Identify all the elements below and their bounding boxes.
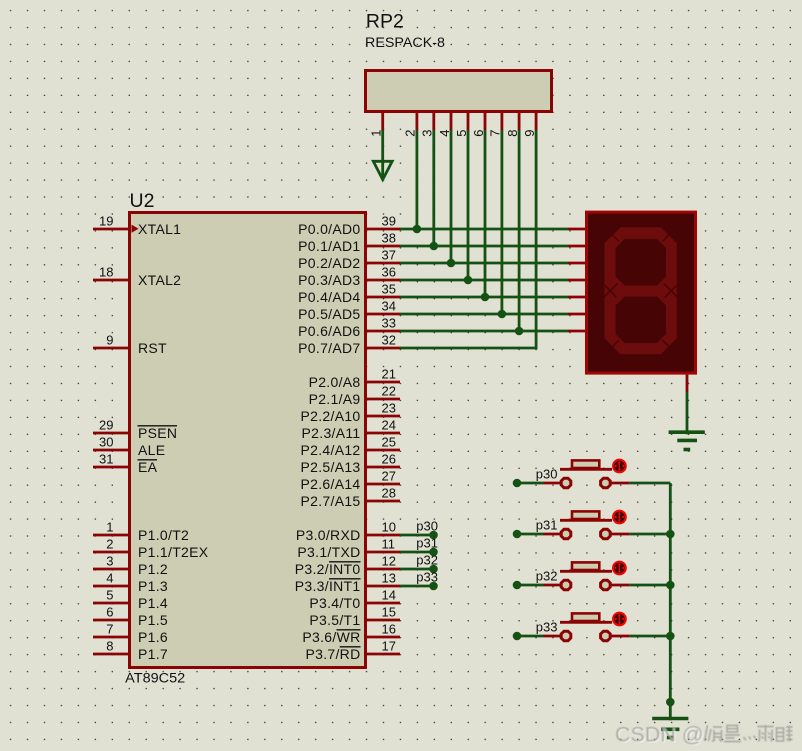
svg-text:P3.0/RXD: P3.0/RXD (296, 527, 361, 543)
wire button p30 to bus (630, 482, 671, 485)
svg-text:P2.0/A8: P2.0/A8 (309, 374, 361, 390)
RP2 pin 4 stub (450, 111, 453, 130)
wire RP2 pin 9 vertical (535, 130, 538, 349)
XTAL1 clock arrow (132, 225, 139, 233)
junction RP2 pin2 / P0.0 (413, 225, 422, 234)
svg-text:P1.2: P1.2 (138, 561, 168, 577)
svg-text:36: 36 (382, 265, 396, 280)
microcontroller U2 AT89C52 body (130, 213, 366, 668)
button right contact (601, 580, 611, 590)
svg-text:32: 32 (382, 333, 396, 348)
wire net p33 stub (400, 585, 434, 588)
wire P0.6 to display (400, 330, 568, 333)
pin 32 stub (367, 347, 400, 350)
svg-text:3: 3 (106, 554, 113, 569)
svg-text:XTAL2: XTAL2 (138, 272, 181, 288)
svg-text:p32: p32 (536, 569, 558, 584)
overline INT0 (329, 561, 361, 563)
pin 2 wire (93, 551, 128, 554)
svg-text:1: 1 (369, 129, 384, 136)
svg-text:25: 25 (382, 435, 396, 450)
button actuator icon (612, 612, 627, 627)
svg-text:P3.5/T1: P3.5/T1 (309, 612, 360, 628)
junction bus (666, 581, 675, 590)
node p33 terminal (button side) (513, 632, 522, 641)
wire P0.2 to display (400, 262, 568, 265)
svg-text:19: 19 (99, 214, 113, 229)
wire display common to ground (686, 392, 689, 434)
svg-text:P2.4/A12: P2.4/A12 (301, 442, 361, 458)
button right contact (601, 529, 611, 539)
button right lead (611, 482, 630, 485)
svg-text:EA: EA (138, 459, 158, 475)
node p32 terminal (button side) (513, 581, 522, 590)
svg-text:XTAL1: XTAL1 (138, 221, 181, 237)
svg-text:8: 8 (106, 639, 113, 654)
svg-text:P0.3/AD3: P0.3/AD3 (298, 272, 360, 288)
svg-text:RST: RST (138, 340, 167, 356)
wire RP2 pin 5 vertical (467, 130, 470, 280)
junction bus lower (666, 698, 675, 707)
wire RP2 pin 3 vertical (432, 130, 435, 246)
svg-text:34: 34 (382, 299, 396, 314)
pin 5 wire (93, 602, 128, 605)
junction bus (666, 530, 675, 539)
pin 3 wire (93, 568, 128, 571)
button actuator bar (560, 519, 612, 522)
svg-text:9: 9 (522, 129, 537, 136)
pin 15 stub (367, 619, 400, 622)
svg-text:P3.4/T0: P3.4/T0 (309, 595, 360, 611)
pin 9 wire (93, 347, 128, 350)
svg-text:RP2: RP2 (366, 10, 404, 32)
node p33 terminal (429, 582, 438, 591)
wire RP2 pin 7 vertical (500, 130, 503, 314)
overline PSEN (138, 425, 178, 427)
display pin stub 0 (568, 228, 585, 231)
button right lead (611, 584, 630, 587)
svg-text:8: 8 (505, 129, 520, 136)
svg-text:24: 24 (382, 418, 396, 433)
RP2 pin 7 stub (500, 111, 503, 130)
button cap (572, 460, 599, 468)
display pin stub 4 (568, 296, 585, 299)
pin 33 stub (367, 330, 400, 333)
pin 30 wire (93, 449, 128, 452)
svg-text:P2.5/A13: P2.5/A13 (301, 459, 361, 475)
pin 7 wire (93, 636, 128, 639)
svg-text:P3.7/RD: P3.7/RD (305, 646, 360, 662)
button left lead (544, 533, 561, 536)
button cap (572, 562, 599, 570)
pin 28 stub (367, 500, 400, 503)
svg-text:21: 21 (382, 367, 396, 382)
svg-text:P0.0/AD0: P0.0/AD0 (298, 221, 360, 237)
display pin stub 5 (568, 313, 585, 316)
svg-text:P0.2/AD2: P0.2/AD2 (298, 255, 360, 271)
wire button p32 to bus (630, 584, 671, 587)
button left lead (544, 635, 561, 638)
svg-text:P1.7: P1.7 (138, 646, 168, 662)
pin 11 stub (367, 551, 400, 554)
svg-text:30: 30 (99, 435, 113, 450)
junction RP2 pin8 / P0.6 (515, 327, 524, 336)
svg-text:P1.0/T2: P1.0/T2 (138, 527, 189, 543)
svg-text:13: 13 (382, 571, 396, 586)
svg-text:P1.1/T2EX: P1.1/T2EX (138, 544, 209, 560)
wire RP2 pin 2 vertical (415, 130, 418, 229)
pin 17 stub (367, 653, 400, 656)
button cap (572, 613, 599, 621)
svg-text:AT89C52: AT89C52 (125, 671, 185, 686)
svg-text:22: 22 (382, 384, 396, 399)
display pin stub 6 (568, 330, 585, 333)
pin 21 stub (367, 381, 400, 384)
junction bus (666, 632, 675, 641)
svg-text:CSDN @: CSDN @ (615, 723, 704, 747)
svg-text:28: 28 (382, 486, 396, 501)
svg-text:18: 18 (99, 265, 113, 280)
svg-text:p30: p30 (536, 467, 558, 482)
svg-text:P0.5/AD5: P0.5/AD5 (298, 306, 360, 322)
svg-text:P3.6/WR: P3.6/WR (302, 629, 360, 645)
button left contact (561, 580, 571, 590)
pin 1 wire (93, 534, 128, 537)
pin 4 wire (93, 585, 128, 588)
RP2 pin 1 stub (381, 111, 384, 130)
wire p33 to button (517, 635, 544, 638)
pin 36 stub (367, 279, 400, 282)
svg-text:17: 17 (382, 639, 396, 654)
svg-text:7: 7 (106, 622, 113, 637)
svg-text:1: 1 (106, 520, 113, 535)
pin 8 wire (93, 653, 128, 656)
svg-text:38: 38 (382, 231, 396, 246)
svg-text:U2: U2 (130, 190, 155, 212)
svg-text:P3.1/TXD: P3.1/TXD (297, 544, 360, 560)
svg-text:39: 39 (382, 214, 396, 229)
wire net p30 stub (400, 534, 434, 537)
svg-text:P3.3/INT1: P3.3/INT1 (295, 578, 361, 594)
button left lead (544, 482, 561, 485)
ground symbol (display) (669, 432, 705, 449)
pin 16 stub (367, 636, 400, 639)
svg-text:14: 14 (382, 588, 396, 603)
button right lead (611, 635, 630, 638)
pin 19 wire (93, 228, 128, 231)
pin 29 wire (93, 432, 128, 435)
RP2 pin 5 stub (467, 111, 470, 130)
svg-text:2: 2 (403, 129, 418, 136)
svg-text:p31: p31 (536, 518, 558, 533)
svg-text:10: 10 (382, 520, 396, 535)
display common pin stub (686, 375, 689, 392)
pin 14 stub (367, 602, 400, 605)
pin 24 stub (367, 432, 400, 435)
svg-text:P1.3: P1.3 (138, 578, 168, 594)
segment seams (604, 228, 677, 354)
button left contact (561, 478, 571, 488)
display pin stub 1 (568, 245, 585, 248)
pin 18 wire (93, 279, 128, 282)
wire net p32 stub (400, 568, 434, 571)
pin 31 wire (93, 466, 128, 469)
pin 23 stub (367, 415, 400, 418)
svg-text:23: 23 (382, 401, 396, 416)
svg-text:4: 4 (437, 129, 452, 136)
svg-text:p33: p33 (536, 620, 558, 635)
pin 34 stub (367, 313, 400, 316)
wire net p31 stub (400, 551, 434, 554)
display pin stub 3 (568, 279, 585, 282)
RP2 pin 8 stub (518, 111, 521, 130)
wire p31 to button (517, 533, 544, 536)
svg-text:P0.7/AD7: P0.7/AD7 (298, 340, 360, 356)
pin 10 stub (367, 534, 400, 537)
overline RD (340, 646, 361, 648)
7-segment display body (587, 212, 696, 373)
RP2 pin 2 stub (415, 111, 418, 130)
svg-text:16: 16 (382, 622, 396, 637)
button actuator bar (560, 621, 612, 624)
ground symbol (buttons) (652, 719, 688, 738)
svg-text:P2.7/A15: P2.7/A15 (301, 493, 361, 509)
wire RP2 pin 6 vertical (484, 130, 487, 297)
7-segment digit 8 (605, 227, 677, 354)
button left contact (561, 529, 571, 539)
svg-text:12: 12 (382, 554, 396, 569)
svg-text:P2.3/A11: P2.3/A11 (302, 425, 361, 441)
svg-text:P3.2/INT0: P3.2/INT0 (295, 561, 361, 577)
svg-text:5: 5 (106, 588, 113, 603)
wire P0.3 to display (400, 279, 568, 282)
svg-text:31: 31 (99, 452, 113, 467)
pin 37 stub (367, 262, 400, 265)
junction RP2 pin7 / P0.5 (498, 310, 507, 319)
node p30 terminal (429, 531, 438, 540)
button actuator bar (560, 570, 612, 573)
wire P0.0 to display (400, 228, 568, 231)
display pin stub 2 (568, 262, 585, 265)
node p30 terminal (button side) (513, 479, 522, 488)
wire button bus vertical (669, 483, 672, 720)
pin 39 stub (367, 228, 400, 231)
pin 12 stub (367, 568, 400, 571)
svg-text:P1.5: P1.5 (138, 612, 168, 628)
svg-text:PSEN: PSEN (138, 425, 177, 441)
svg-text:6: 6 (471, 129, 486, 136)
svg-text:RESPACK-8: RESPACK-8 (365, 35, 445, 50)
node p31 terminal (429, 548, 438, 557)
wire p32 to button (517, 584, 544, 587)
wire RP2 pin 4 vertical (450, 130, 453, 263)
svg-text:P2.2/A10: P2.2/A10 (301, 408, 361, 424)
pin 6 wire (93, 619, 128, 622)
overline EA (138, 459, 158, 461)
svg-text:P2.1/A9: P2.1/A9 (309, 391, 361, 407)
wire p30 to button (517, 482, 544, 485)
button cap (572, 511, 599, 519)
junction RP2 pin5 / P0.3 (464, 276, 473, 285)
svg-text:P0.4/AD4: P0.4/AD4 (298, 289, 360, 305)
resistor pack RP2 (366, 71, 552, 112)
svg-text:37: 37 (382, 248, 396, 263)
button right lead (611, 533, 630, 536)
svg-text:9: 9 (106, 333, 113, 348)
pin 35 stub (367, 296, 400, 299)
svg-text:P0.6/AD6: P0.6/AD6 (298, 323, 360, 339)
wire RP2 pin 8 vertical (518, 130, 521, 331)
svg-text:11: 11 (382, 537, 396, 552)
wire P0.7 to RP2 pin9 (400, 347, 536, 350)
pin 25 stub (367, 449, 400, 452)
svg-text:P0.1/AD1: P0.1/AD1 (298, 238, 360, 254)
svg-text:3: 3 (420, 129, 435, 136)
pin 38 stub (367, 245, 400, 248)
pin 26 stub (367, 466, 400, 469)
button right contact (601, 478, 611, 488)
svg-text:26: 26 (382, 452, 396, 467)
svg-text:P1.4: P1.4 (138, 595, 168, 611)
button right contact (601, 631, 611, 641)
wire button p31 to bus (630, 533, 671, 536)
ground arrow symbol (373, 161, 392, 179)
wire P0.4 to display (400, 296, 568, 299)
pin 27 stub (367, 483, 400, 486)
RP2 pin 3 stub (432, 111, 435, 130)
svg-text:5: 5 (454, 129, 469, 136)
junction RP2 pin4 / P0.2 (447, 259, 456, 268)
button actuator icon (612, 561, 627, 576)
svg-text:P1.6: P1.6 (138, 629, 168, 645)
wire P0.5 to display (400, 313, 568, 316)
svg-text:27: 27 (382, 469, 396, 484)
button left lead (544, 584, 561, 587)
RP2 pin 9 stub (535, 111, 538, 130)
wire RP2 pin1 to ground (381, 130, 384, 179)
wire P0.1 to display (400, 245, 568, 248)
svg-text:6: 6 (106, 605, 113, 620)
node p31 terminal (button side) (513, 530, 522, 539)
svg-text:2: 2 (106, 537, 113, 552)
pin 22 stub (367, 398, 400, 401)
button left contact (561, 631, 571, 641)
svg-text:ALE: ALE (138, 442, 165, 458)
svg-text:4: 4 (106, 571, 113, 586)
RP2 pin 6 stub (484, 111, 487, 130)
svg-text:P2.6/A14: P2.6/A14 (301, 476, 361, 492)
junction RP2 pin6 / P0.4 (481, 293, 490, 302)
overline WR (337, 629, 361, 631)
node p32 terminal (429, 565, 438, 574)
pin 13 stub (367, 585, 400, 588)
button actuator icon (612, 510, 627, 525)
junction RP2 pin3 / P0.1 (430, 242, 439, 251)
button actuator bar (560, 468, 612, 471)
svg-text:29: 29 (99, 418, 113, 433)
svg-text:33: 33 (382, 316, 396, 331)
svg-text:35: 35 (382, 282, 396, 297)
svg-text:15: 15 (382, 605, 396, 620)
button actuator icon (612, 459, 627, 474)
overline INT1 (329, 578, 361, 580)
wire button p33 to bus (630, 635, 671, 638)
svg-text:7: 7 (488, 129, 503, 136)
